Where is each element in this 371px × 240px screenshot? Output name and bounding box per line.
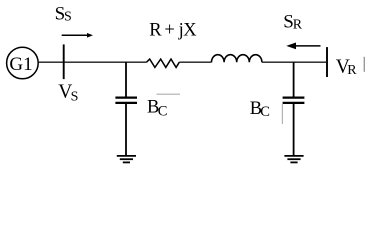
wire: capacitor to ground (receiving) xyxy=(293,104,295,157)
bus bar receiving end xyxy=(326,47,328,77)
inductor X xyxy=(212,55,262,63)
label S_R xyxy=(283,12,303,33)
capacitor B_C receiving (plates) xyxy=(283,98,305,103)
label B_C receiving xyxy=(250,99,270,120)
svg-text:R+jX: R+jX xyxy=(149,20,197,40)
label S_S xyxy=(55,4,72,25)
label V_S xyxy=(58,81,78,104)
resistor R xyxy=(147,59,180,67)
wire: resistor to inductor xyxy=(179,61,211,63)
ground (receiving) xyxy=(284,156,303,163)
arrow S_R (left) xyxy=(286,43,320,50)
wire: inductor to receiving bus xyxy=(262,61,326,63)
faint overline above left B_C xyxy=(157,94,181,95)
svg-text:C: C xyxy=(260,104,270,120)
faint stray mark near V_R xyxy=(364,57,365,72)
faint stray vertical near right capacitor xyxy=(282,104,283,125)
svg-text:C: C xyxy=(158,103,168,119)
wire: G1 to resistor xyxy=(38,61,146,63)
svg-text:S: S xyxy=(64,9,72,24)
label B_C sending xyxy=(147,98,167,120)
svg-text:R: R xyxy=(347,63,357,78)
generator G1 xyxy=(7,47,39,79)
svg-text:G1: G1 xyxy=(9,54,32,75)
svg-text:R: R xyxy=(293,17,303,32)
wire: sending shunt branch down xyxy=(125,62,127,97)
wire: capacitor to ground (sending) xyxy=(125,104,127,157)
svg-text:S: S xyxy=(71,90,79,105)
bus bar sending end xyxy=(63,44,65,79)
arrow S_S (right) xyxy=(62,33,93,38)
wire: receiving shunt branch down xyxy=(293,62,295,97)
label V_R xyxy=(336,56,357,78)
ground (sending) xyxy=(117,156,136,163)
capacitor B_C sending (plates) xyxy=(115,98,137,103)
